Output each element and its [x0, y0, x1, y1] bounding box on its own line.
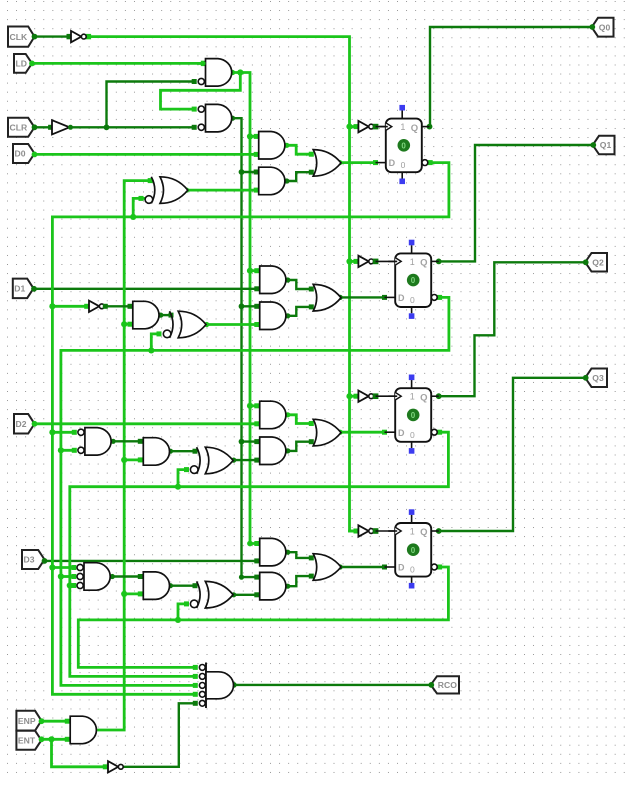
wire ENT to inverter	[52, 739, 108, 769]
wire and2L to xor2	[158, 313, 173, 318]
svg-text:0: 0	[401, 141, 406, 150]
svg-text:0: 0	[411, 546, 416, 555]
nand gate stage4	[77, 563, 110, 591]
wire or4 to FF3 D	[338, 564, 398, 569]
svg-text:Q: Q	[411, 123, 418, 134]
wire and2b to or2	[285, 304, 314, 318]
wire notQ3 feedback	[78, 565, 448, 670]
input label D1	[13, 279, 37, 299]
svg-text:ENP: ENP	[18, 716, 36, 726]
wire and3b to or3	[285, 439, 314, 453]
and gate stage1 load	[259, 132, 285, 160]
svg-text:0: 0	[410, 295, 415, 305]
input label D2	[14, 414, 37, 434]
input label D3	[22, 550, 47, 569]
svg-text:CLK: CLK	[10, 32, 28, 42]
and gate RCO	[199, 663, 233, 709]
wire D3	[45, 558, 260, 563]
wire notQ1 feedback	[58, 295, 449, 688]
flip-flop FF0	[379, 105, 430, 184]
svg-text:Q: Q	[420, 527, 427, 538]
output label Q1	[590, 136, 614, 155]
wire or2 to FF1 D	[338, 295, 398, 300]
svg-text:1: 1	[400, 122, 405, 132]
xor gate stage2	[163, 311, 206, 338]
svg-text:D: D	[398, 293, 405, 303]
and gate stage4 left	[143, 572, 169, 600]
svg-text:0: 0	[401, 160, 406, 170]
wire xor1 to and1b	[184, 188, 259, 193]
wire and4a to or4	[285, 550, 314, 561]
wire xor4 to and4b	[231, 592, 259, 597]
xor gate stage4	[190, 581, 233, 608]
input label ENP	[16, 711, 44, 731]
wire gate B output keep vertical	[230, 116, 259, 580]
wire RCO	[231, 682, 431, 688]
wire nand3 to and3	[111, 439, 143, 444]
svg-text:0: 0	[410, 430, 415, 440]
and gate stage2 load	[260, 266, 286, 294]
wire CLR to gate A	[107, 79, 197, 127]
svg-text:Q: Q	[420, 258, 427, 269]
xor gate stage3	[190, 447, 233, 474]
svg-text:D2: D2	[16, 419, 27, 429]
input label CLK	[8, 27, 37, 47]
flip-flop FF3	[388, 509, 439, 588]
inverter ENT	[108, 761, 123, 772]
and gate enable	[70, 716, 96, 744]
wire D1	[34, 286, 259, 291]
wire and4L to xor4	[168, 583, 198, 588]
svg-text:RCO: RCO	[438, 680, 457, 690]
svg-text:D0: D0	[15, 149, 26, 159]
svg-text:D: D	[398, 563, 405, 573]
wire ENT inverted to RCO gate	[121, 701, 198, 767]
wire Q1 output	[436, 145, 593, 264]
wire D2	[35, 421, 260, 426]
input label D0	[13, 144, 37, 163]
wire D0	[35, 152, 259, 157]
input label CLR	[8, 118, 37, 137]
svg-text:Q: Q	[420, 392, 427, 403]
wire or3 to FF2 D	[338, 430, 398, 435]
wire CLR to buffer	[35, 125, 54, 130]
wire and4b to or4	[285, 574, 314, 589]
svg-text:1: 1	[410, 526, 415, 536]
wire CLK input to inverter	[35, 34, 72, 39]
output label Q2	[583, 253, 607, 272]
wire notQ2 feedback	[67, 430, 449, 679]
input label ENT	[16, 731, 44, 750]
inverter on CLK	[71, 31, 86, 42]
wire ENT	[42, 736, 70, 742]
wire CLK inverted distribution	[86, 34, 359, 534]
inverter stage2	[89, 301, 108, 312]
wire Q3 output	[436, 378, 586, 534]
nand gate stage3	[78, 428, 111, 456]
buffer on CLR	[52, 120, 73, 134]
output label Q3	[583, 369, 607, 388]
wire and3 to xor3	[168, 449, 198, 454]
wire notQ0 feedback	[49, 160, 449, 697]
output label RCO	[428, 676, 459, 693]
gate B nand CLR	[198, 104, 232, 131]
wire LD to gate A	[32, 61, 206, 66]
and gate stage2 left	[133, 301, 159, 329]
svg-text:0: 0	[411, 276, 416, 285]
input label LD	[14, 54, 35, 73]
or gate stage2	[313, 284, 341, 311]
clock inverter FF3	[350, 525, 398, 536]
svg-text:1: 1	[410, 392, 415, 402]
svg-text:Q3: Q3	[592, 373, 604, 383]
wire xor2 to and2b	[204, 322, 259, 327]
wire and3a to or3	[285, 412, 314, 426]
and gate stage3 count	[260, 437, 286, 465]
wire gate A to gate B	[161, 73, 241, 112]
wire enable chain	[99, 178, 153, 730]
flip-flop FF1	[388, 240, 439, 319]
wire xor3 to and3b	[231, 458, 259, 463]
gate A nand LD	[197, 59, 232, 87]
svg-text:CLR: CLR	[10, 123, 28, 133]
wire Q2 output	[436, 262, 586, 399]
wire and2a to or2	[285, 277, 314, 291]
wire ENP	[42, 719, 70, 724]
and gate stage4 load	[260, 538, 286, 566]
output label Q0	[589, 18, 613, 37]
wire or1 to FF0 D	[337, 160, 388, 165]
and gate stage3 left	[143, 438, 169, 466]
wire and1b to or1	[284, 170, 314, 184]
svg-text:ENT: ENT	[18, 736, 36, 746]
and gate stage2 count	[260, 302, 286, 330]
wire CLR buffered	[70, 124, 197, 130]
svg-text:Q0: Q0	[599, 22, 611, 32]
svg-text:LD: LD	[16, 59, 27, 69]
svg-text:Q2: Q2	[592, 257, 604, 267]
or gate stage4	[313, 554, 341, 581]
clock inverter FF2	[346, 391, 397, 402]
svg-text:D1: D1	[14, 284, 25, 294]
svg-text:D3: D3	[24, 555, 35, 565]
svg-text:1: 1	[410, 257, 415, 267]
svg-text:D: D	[398, 428, 405, 438]
or gate stage1	[313, 150, 341, 177]
wire Q0 output	[427, 27, 592, 130]
clock inverter FF1	[346, 256, 397, 267]
wire gate A output load vertical	[230, 69, 259, 546]
or gate stage3	[313, 419, 341, 446]
and gate stage1 count	[259, 167, 285, 195]
svg-text:0: 0	[411, 411, 416, 420]
svg-text:D: D	[389, 158, 396, 168]
flip-flop FF2	[388, 375, 439, 454]
and gate stage3 load	[260, 401, 286, 429]
xor gate stage1	[145, 177, 188, 204]
svg-text:0: 0	[410, 565, 415, 575]
wire inv2 to and2L	[104, 304, 133, 309]
and gate stage4 count	[260, 572, 286, 600]
svg-text:Q1: Q1	[600, 140, 612, 150]
wire and1a to or1	[284, 143, 314, 157]
wire nand4 to and4L	[110, 574, 143, 579]
clock inverter FF0	[346, 121, 387, 132]
